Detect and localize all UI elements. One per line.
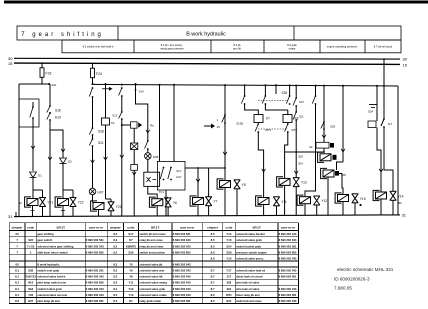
svg-text:7 t-23: 7 t-23 <box>27 244 35 248</box>
svg-text:Y7: Y7 <box>213 200 217 204</box>
valve Y22 <box>70 198 77 207</box>
connector X2 <box>131 165 138 171</box>
svg-text:6 690 202 043: 6 690 202 043 <box>173 263 191 267</box>
coil Y8 <box>217 179 230 189</box>
svg-text:solenoid valve grab: solenoid valve grab <box>236 238 262 242</box>
svg-text:S26: S26 <box>128 250 133 254</box>
coil Y7 <box>190 196 203 206</box>
svg-text:S18: S18 <box>55 109 61 113</box>
svg-text:engine operating pressure: engine operating pressure <box>327 45 358 49</box>
svg-text:H07: H07 <box>28 299 34 303</box>
svg-text:S17: S17 <box>128 232 133 236</box>
wire coil Y22 to ground rail <box>62 206 64 217</box>
wire x377 drop <box>376 85 378 87</box>
svg-text:Y13: Y13 <box>128 293 133 297</box>
resistor R2 with terminal <box>316 142 329 148</box>
contact S17 <box>163 167 165 169</box>
branch wire to coil Y22 <box>50 130 63 158</box>
wire drop x315 to coil Y12 <box>315 85 317 87</box>
svg-text:Y22: Y22 <box>78 201 84 205</box>
svg-text:6 690 202 043: 6 690 202 043 <box>279 238 297 242</box>
svg-text:S13: S13 <box>112 114 118 118</box>
svg-text:8.3: 8.3 <box>113 281 117 285</box>
svg-text:6 690 202 043: 6 690 202 043 <box>86 287 104 291</box>
lamp H10 <box>49 112 51 114</box>
svg-text:solenoid valve hold-it: solenoid valve hold-it <box>37 275 65 279</box>
relay box (gear selector) <box>19 99 39 127</box>
svg-text:S14: S14 <box>139 90 145 94</box>
relay K1 <box>102 118 110 125</box>
svg-text:K1: K1 <box>111 121 115 125</box>
svg-text:D1: D1 <box>38 174 42 178</box>
wire box to coil Y7 <box>185 167 225 169</box>
svg-text:timer relay jib arm: timer relay jib arm <box>236 293 260 297</box>
svg-text:6 690 003 561: 6 690 003 561 <box>86 238 104 242</box>
contact MT2 below K8 <box>287 123 289 125</box>
valve Y8 <box>234 180 241 189</box>
svg-text:6 690 202 043: 6 690 202 043 <box>86 275 104 279</box>
svg-text:8.7 wh-oil circuit: 8.7 wh-oil circuit <box>374 45 393 49</box>
svg-text:B work hydraulic: B work hydraulic <box>186 32 226 38</box>
svg-text:switch end position: switch end position <box>139 250 165 254</box>
svg-text:Y6: Y6 <box>129 269 133 273</box>
contact J17 <box>383 118 385 120</box>
svg-text:6 690 202 043: 6 690 202 043 <box>173 269 191 273</box>
wire valve Y23 stem <box>110 199 112 202</box>
bus 15 <box>14 63 400 64</box>
svg-text:solenoid valve gear shifting: solenoid valve gear shifting <box>37 244 74 248</box>
svg-text:4a1: 4a1 <box>52 83 57 87</box>
svg-text:H10: H10 <box>28 281 34 285</box>
svg-text:part no-m: part no-m <box>180 225 194 229</box>
svg-text:S24: S24 <box>226 244 231 248</box>
coil Y23 <box>91 201 104 211</box>
svg-text:solenoid valve rotate: solenoid valve rotate <box>139 293 167 297</box>
svg-text:code: code <box>27 225 34 229</box>
relay K7 <box>254 115 263 123</box>
svg-text:un | t: un | t <box>57 226 66 230</box>
svg-text:MT1: MT1 <box>266 128 272 132</box>
svg-text:Y10: Y10 <box>226 256 231 260</box>
contact on lamp branch <box>147 140 149 142</box>
wire drop x225 <box>224 85 226 180</box>
svg-text:K1: K1 <box>129 299 133 303</box>
svg-text:S24: S24 <box>368 110 374 114</box>
svg-text:diode leak oil circuit: diode leak oil circuit <box>236 275 263 279</box>
connector X1 with arrow <box>122 124 131 126</box>
contact on x225 <box>224 114 226 116</box>
svg-text:324: 324 <box>298 162 303 166</box>
svg-text:J17: J17 <box>388 122 393 126</box>
svg-text:chapter: chapter <box>207 225 219 229</box>
valve Y12 <box>313 196 320 205</box>
svg-text:Ra: Ra <box>150 124 154 128</box>
svg-text:8.7: 8.7 <box>211 281 215 285</box>
svg-text:Y12: Y12 <box>322 199 328 203</box>
connector J-block <box>368 121 376 128</box>
connector plug 15+ <box>204 125 211 127</box>
wire x384 from bus 30 <box>383 59 385 119</box>
aux coil 318 <box>321 168 334 178</box>
svg-text:D2: D2 <box>68 160 72 164</box>
svg-text:Y17: Y17 <box>226 269 231 273</box>
svg-text:pilot lamp switch-over: pilot lamp switch-over <box>37 281 67 285</box>
svg-text:6 690 202 043: 6 690 202 043 <box>86 293 104 297</box>
svg-text:un | t: un | t <box>151 226 160 230</box>
svg-text:rotate: rotate <box>289 47 296 51</box>
svg-text:8.5: 8.5 <box>211 232 215 236</box>
contact S26 pair <box>264 84 266 86</box>
svg-text:324: 324 <box>227 287 232 291</box>
svg-text:switch jib arm raise: switch jib arm raise <box>236 299 262 303</box>
svg-text:Y14: Y14 <box>398 194 404 198</box>
coil Y15 <box>335 193 348 203</box>
contact MT1 below K7 <box>257 123 259 125</box>
svg-text:6 690 202 043: 6 690 202 043 <box>173 244 191 248</box>
svg-text:15: 15 <box>8 61 13 66</box>
svg-text:8.2: 8.2 <box>211 299 215 303</box>
svg-text:Y21: Y21 <box>47 201 53 205</box>
wire drop x343 <box>342 85 344 87</box>
wire column 296 with aux contacts <box>295 85 297 87</box>
svg-text:swing gear pressure: swing gear pressure <box>160 47 184 51</box>
svg-text:321: 321 <box>299 115 304 119</box>
svg-text:K7: K7 <box>129 238 133 242</box>
svg-text:6 690 003 805: 6 690 003 805 <box>86 250 104 254</box>
svg-text:code: code <box>225 225 232 229</box>
svg-text:6 690 202 043: 6 690 202 043 <box>279 287 297 291</box>
svg-text:S17: S17 <box>176 169 182 173</box>
svg-text:K7: K7 <box>266 117 270 121</box>
svg-text:switch-over grab: switch-over grab <box>37 269 59 273</box>
fuse F23 <box>40 68 44 78</box>
wire: left rail <box>18 84 20 216</box>
wire aux coil ground return <box>327 177 329 215</box>
wire K7 to coil Y11 <box>258 132 263 198</box>
svg-text:Y11: Y11 <box>128 281 133 285</box>
wire from selector box to coil Y21 <box>32 127 34 171</box>
svg-text:J17: J17 <box>227 275 232 279</box>
svg-text:8.1: 8.1 <box>15 281 19 285</box>
valve Y14 <box>390 191 397 200</box>
stub node x276 <box>275 84 277 86</box>
svg-text:switch jib arm lower: switch jib arm lower <box>139 232 166 236</box>
svg-text:328: 328 <box>298 155 303 159</box>
svg-text:8.3: 8.3 <box>113 263 117 267</box>
svg-text:Y15: Y15 <box>226 238 231 242</box>
svg-text:8.3: 8.3 <box>113 269 117 273</box>
wire: main distribution line y84 <box>93 84 399 86</box>
wire drop x244 <box>244 84 246 86</box>
switch S21 <box>92 135 94 139</box>
svg-text:8.7: 8.7 <box>211 269 215 273</box>
contact S28 <box>92 87 94 89</box>
svg-text:8.4: 8.4 <box>113 287 117 291</box>
svg-text:solenoid valve bucket: solenoid valve bucket <box>236 232 265 236</box>
svg-text:H08: H08 <box>153 155 159 159</box>
valve Y11 <box>273 197 280 206</box>
svg-text:8.2: 8.2 <box>211 293 215 297</box>
svg-text:8.3: 8.3 <box>113 275 117 279</box>
svg-text:6 690 003 561: 6 690 003 561 <box>173 232 191 236</box>
svg-text:arm lift: arm lift <box>233 47 241 51</box>
wire drop x121.8 / switch S13 <box>121 84 123 86</box>
svg-text:wire leak oil valve: wire leak oil valve <box>235 287 260 291</box>
svg-text:8.6: 8.6 <box>211 256 215 260</box>
svg-text:solenoid valve grab: solenoid valve grab <box>139 287 165 291</box>
svg-text:Y6: Y6 <box>173 201 177 205</box>
svg-text:relay jib arm lower: relay jib arm lower <box>139 244 164 248</box>
valve Y7 <box>205 197 212 206</box>
valve Y23 <box>108 202 115 211</box>
switch S24 <box>369 104 377 106</box>
fuse F24 <box>91 68 95 78</box>
svg-text:pressure switch engine: pressure switch engine <box>236 250 267 254</box>
svg-text:8.2: 8.2 <box>113 244 117 248</box>
svg-text:8.2 jib / arm swing -: 8.2 jib / arm swing - <box>161 43 184 47</box>
svg-text:6 690 003 805: 6 690 003 805 <box>173 250 191 254</box>
svg-text:80: 80 <box>399 201 403 205</box>
svg-text:31: 31 <box>402 212 407 217</box>
wire drop x324 <box>323 85 325 87</box>
svg-text:wire leak oil valve: wire leak oil valve <box>235 281 260 285</box>
wire F23 drop <box>41 63 43 68</box>
svg-text:328: 328 <box>227 281 232 285</box>
bus 30 <box>14 57 400 60</box>
node 4a1 <box>48 83 50 85</box>
wire K1 drop <box>105 84 107 118</box>
svg-text:31: 31 <box>8 214 13 219</box>
top border bar <box>4 1 428 4</box>
wire aux coil to valve Y15 <box>339 174 343 195</box>
svg-text:8.1: 8.1 <box>15 275 19 279</box>
svg-text:Y5: Y5 <box>129 263 133 267</box>
coil Y11 <box>256 196 269 206</box>
svg-text:B work hydraulic: B work hydraulic <box>37 263 60 267</box>
svg-text:switch bucket grab: switch bucket grab <box>236 244 261 248</box>
svg-text:8.2: 8.2 <box>113 232 117 236</box>
svg-text:15: 15 <box>403 62 408 67</box>
svg-text:relay grab rotate: relay grab rotate <box>139 299 161 303</box>
svg-text:relay jib arm raise: relay jib arm raise <box>139 238 163 242</box>
svg-text:Y13: Y13 <box>301 181 307 185</box>
contact inside selector box <box>32 106 34 108</box>
svg-text:solenoid valve sw-over: solenoid valve sw-over <box>37 293 68 297</box>
svg-text:8.1: 8.1 <box>15 287 19 291</box>
svg-text:6 690 202 043: 6 690 202 043 <box>173 293 191 297</box>
svg-text:gear shifting: gear shifting <box>37 232 54 236</box>
svg-text:Y23: Y23 <box>116 205 122 209</box>
svg-text:6 690 202 043: 6 690 202 043 <box>279 232 297 236</box>
svg-text:solenoid valve swing: solenoid valve swing <box>139 281 167 285</box>
svg-text:6 690 202 043: 6 690 202 043 <box>279 299 297 303</box>
ground rail 31 <box>14 215 400 217</box>
svg-text:6 690 003 561: 6 690 003 561 <box>279 244 297 248</box>
svg-text:S23: S23 <box>28 238 33 242</box>
svg-text:Y12: Y12 <box>128 287 133 291</box>
svg-text:electric schematic MHL 331: electric schematic MHL 331 <box>337 267 394 272</box>
svg-text:Y14: Y14 <box>226 232 231 236</box>
switch S18 <box>49 84 51 106</box>
svg-text:solenoid valve arm: solenoid valve arm <box>139 269 164 273</box>
svg-text:7.980.05: 7.980.05 <box>334 286 352 291</box>
switch S29 <box>323 121 325 123</box>
svg-text:H17: H17 <box>176 175 182 179</box>
svg-text:MT1: MT1 <box>226 293 232 297</box>
svg-text:02: 02 <box>18 201 22 205</box>
svg-text:15: 15 <box>217 125 221 129</box>
contact H17 <box>170 167 172 169</box>
wire coil Y21 to ground rail <box>32 206 34 217</box>
svg-text:8.5: 8.5 <box>211 238 215 242</box>
svg-text:6 690 003 561: 6 690 003 561 <box>279 275 297 279</box>
svg-text:8.7: 8.7 <box>211 287 215 291</box>
svg-text:8.1: 8.1 <box>15 293 19 297</box>
svg-text:6 690 202 043: 6 690 202 043 <box>173 287 191 291</box>
svg-text:S26: S26 <box>282 91 288 95</box>
svg-text:H07: H07 <box>98 191 104 195</box>
svg-text:Y23: Y23 <box>28 293 33 297</box>
svg-text:8.6: 8.6 <box>211 250 215 254</box>
svg-text:8.3 jib: 8.3 jib <box>234 43 241 47</box>
svg-text:00: 00 <box>16 263 20 267</box>
svg-text:solenoid valve press.: solenoid valve press. <box>236 256 264 260</box>
wire from S18 down <box>49 120 51 216</box>
svg-text:8.2: 8.2 <box>113 250 117 254</box>
coil Y6 <box>149 197 162 207</box>
wire: left feed y84 <box>19 83 50 85</box>
diode D2 <box>60 158 67 164</box>
svg-text:S2: S2 <box>309 145 313 149</box>
wire F24 drop <box>92 64 94 69</box>
svg-text:8.1 switch-over with hold-it: 8.1 switch-over with hold-it <box>83 45 114 49</box>
coil Y12 <box>297 195 310 205</box>
svg-text:solenoid valve jib: solenoid valve jib <box>139 263 162 267</box>
svg-text:30: 30 <box>403 57 408 62</box>
lamp H07 <box>89 188 96 195</box>
svg-text:8.4: 8.4 <box>113 293 117 297</box>
svg-text:gear switch: gear switch <box>37 238 52 242</box>
parts table block 3 <box>203 223 299 304</box>
svg-text:F23: F23 <box>46 72 52 76</box>
coil Y14 <box>373 190 386 200</box>
svg-text:6 690 003 561: 6 690 003 561 <box>173 299 191 303</box>
svg-text:chapter: chapter <box>12 225 24 229</box>
svg-text:6 690 003 805: 6 690 003 805 <box>279 250 297 254</box>
svg-text:Y15: Y15 <box>360 197 366 201</box>
switch box S17/H17 <box>159 85 161 162</box>
wire coil Y23 ground <box>98 210 100 217</box>
coil Y13 <box>277 177 290 187</box>
svg-text:ID 6090200026-3: ID 6090200026-3 <box>334 277 370 282</box>
svg-text:6 690 003 561: 6 690 003 561 <box>86 299 104 303</box>
svg-text:chapter: chapter <box>110 225 122 229</box>
svg-text:shift lever micro switch: shift lever micro switch <box>37 250 68 254</box>
wire: right rail <box>397 86 399 215</box>
svg-text:6 690 003 805: 6 690 003 805 <box>86 281 104 285</box>
wire drop x135.5 / relay contact S14 <box>135 83 137 85</box>
coil Y22 <box>55 197 68 207</box>
svg-text:S21: S21 <box>98 141 104 145</box>
svg-text:6 690 202 043: 6 690 202 043 <box>279 256 297 260</box>
svg-text:8.7: 8.7 <box>211 275 215 279</box>
wire jog to aux coil <box>337 162 344 170</box>
svg-text:un | t: un | t <box>252 226 261 230</box>
svg-text:6 690 202 043: 6 690 202 043 <box>279 269 297 273</box>
connector block X41 <box>144 172 160 186</box>
valve Y6 <box>165 198 172 207</box>
node below F24 <box>92 83 94 85</box>
svg-text:S18: S18 <box>28 287 33 291</box>
parts table block 1 <box>9 223 107 304</box>
connector X4 (crossed) <box>133 128 135 143</box>
wire K8 to coil Y13 <box>285 132 288 178</box>
title text block <box>334 267 394 291</box>
svg-text:part no-m: part no-m <box>89 225 103 229</box>
header table row 1 <box>17 26 401 40</box>
svg-text:S21B: S21B <box>236 122 243 126</box>
relay K8 <box>283 115 292 123</box>
svg-text:Y8: Y8 <box>242 183 246 187</box>
svg-text:part no-m: part no-m <box>281 225 295 229</box>
svg-text:6 690 202 043: 6 690 202 043 <box>173 281 191 285</box>
svg-text:7 gear shifting: 7 gear shifting <box>21 32 104 38</box>
svg-text:8.4: 8.4 <box>113 299 117 303</box>
svg-text:8.5: 8.5 <box>211 244 215 248</box>
svg-text:pilot lamp jib arm: pilot lamp jib arm <box>37 299 60 303</box>
svg-text:00: 00 <box>16 232 20 236</box>
wire valve Y22 stem <box>63 189 73 191</box>
svg-text:6 690 003 561: 6 690 003 561 <box>86 269 104 273</box>
svg-text:H10: H10 <box>55 116 61 120</box>
header table row 2 <box>62 40 401 53</box>
svg-text:6 690 202 043: 6 690 202 043 <box>173 238 191 242</box>
svg-text:K8/MT2: K8/MT2 <box>126 244 136 248</box>
svg-text:switch hold-it grab: switch hold-it grab <box>37 287 62 291</box>
diode D1 <box>30 172 37 178</box>
svg-text:6 690 003 561: 6 690 003 561 <box>279 293 297 297</box>
coil Y10 <box>318 152 331 162</box>
valve Y15 <box>352 194 359 203</box>
svg-text:S29: S29 <box>330 125 336 129</box>
svg-text:6 690 202 043: 6 690 202 043 <box>173 275 191 279</box>
svg-text:S28: S28 <box>98 130 104 134</box>
svg-text:Y8: Y8 <box>129 275 133 279</box>
parts table block 2 <box>107 223 203 304</box>
wire arrows <box>31 146 35 149</box>
svg-text:8.2: 8.2 <box>15 299 19 303</box>
svg-text:8.1: 8.1 <box>15 269 19 273</box>
svg-text:S21: S21 <box>226 299 231 303</box>
switch S28 <box>92 127 94 129</box>
svg-text:S28: S28 <box>28 269 33 273</box>
svg-text:8.2: 8.2 <box>113 238 117 242</box>
svg-text:Y16/Y21: Y16/Y21 <box>25 275 36 279</box>
svg-text:solenoid valve leak oil: solenoid valve leak oil <box>236 269 265 273</box>
svg-text:S27: S27 <box>299 100 304 104</box>
svg-text:8.4 grab: 8.4 grab <box>287 43 297 47</box>
svg-text:TV1: TV1 <box>159 190 165 194</box>
wire valve Y21 stem <box>33 189 43 191</box>
lamp H08 <box>147 149 149 153</box>
svg-text:6 690 202 043: 6 690 202 043 <box>86 244 104 248</box>
valve Y13 <box>293 178 300 187</box>
valve Y21 <box>39 198 46 207</box>
svg-text:F24: F24 <box>96 72 102 76</box>
svg-text:code: code <box>127 225 134 229</box>
svg-text:S29: S29 <box>226 250 231 254</box>
svg-text:solenoid valve lift: solenoid valve lift <box>139 275 162 279</box>
